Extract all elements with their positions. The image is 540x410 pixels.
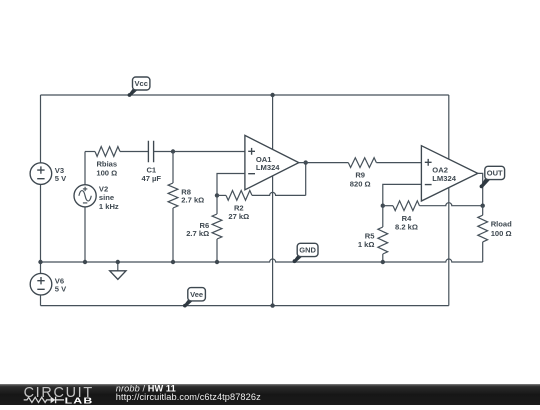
junction OUT node [481,204,485,208]
svg-text:http://circuitlab.com/c6tz4tp8: http://circuitlab.com/c6tz4tp87826z [116,392,261,402]
node junction R2/R6/OA1- [215,193,219,197]
footer bar [0,384,540,405]
wire OA1 output / resistor R9 [299,158,422,189]
svg-text:Rbias: Rbias [96,160,117,169]
wire GND mid rail [41,259,483,262]
junction V2 on GND rail [83,260,87,264]
svg-text:R2: R2 [234,203,244,212]
svg-text:R9: R9 [355,170,365,179]
junction R8 to GND rail [171,260,175,264]
voltage source V3 [30,163,67,185]
svg-text:R4: R4 [402,214,412,223]
resistor R5 [358,206,388,262]
junction OA1 V+ on Vcc rail [270,93,274,97]
svg-text:LM324: LM324 [256,163,280,172]
svg-text:sine: sine [99,193,114,202]
svg-text:2.7 kΩ: 2.7 kΩ [186,229,209,238]
resistor R8 [168,152,204,263]
svg-text:5 V: 5 V [55,174,67,183]
voltage source V6 [30,262,67,306]
node A junction (C1/R8/OA1+) [171,149,175,153]
svg-text:2.7 kΩ: 2.7 kΩ [181,196,204,205]
resistor R2 feedback [217,191,306,222]
wire OA1 V+ supply [272,95,274,152]
CircuitLab logo [24,385,94,406]
wire OA2 V- supply [448,185,450,306]
junction OA1 V- on Vee rail [270,303,274,307]
wire OA2 inverting input [383,184,422,205]
svg-text:1 kΩ: 1 kΩ [358,240,375,249]
svg-text:8.2 kΩ: 8.2 kΩ [395,223,418,232]
node Vee flag [183,288,205,308]
svg-text:27 kΩ: 27 kΩ [228,212,249,221]
capacitor C1 [142,141,245,183]
junction OA1 output node [304,160,308,164]
svg-text:820 Ω: 820 Ω [350,179,371,188]
svg-text:GND: GND [299,246,316,255]
junction ground tap [116,260,120,264]
sine source V2 [74,152,119,263]
resistor Rbias [85,147,148,178]
wire OA1 V- supply [272,174,274,306]
wire OA2 output [478,173,483,205]
resistor R6 [186,195,222,262]
junction R6 to GND rail [215,260,219,264]
junction R5 to GND rail [381,260,385,264]
wire OA2 V+ supply [448,95,450,162]
node Vcc flag [128,77,150,97]
svg-text:100 Ω: 100 Ω [491,229,512,238]
svg-text:LAB: LAB [65,396,94,405]
svg-text:Vee: Vee [190,290,203,299]
svg-text:100 Ω: 100 Ω [96,168,117,177]
ground [110,262,126,279]
resistor R4 feedback [383,201,483,232]
wire left rail lower (V3 to GND rail) [40,184,42,262]
wire feedback riser to OA1 output [305,163,307,196]
svg-text:47 µF: 47 µF [142,174,162,183]
svg-text:Vcc: Vcc [135,79,148,88]
node OUT flag [480,166,505,188]
svg-text:OUT: OUT [487,169,503,178]
node GND flag [293,243,318,263]
svg-text:1 kHz: 1 kHz [99,202,119,211]
svg-text:LM324: LM324 [432,174,456,183]
svg-text:5 V: 5 V [55,284,67,293]
resistor Rload [478,206,512,262]
wire Vee bottom rail [41,305,449,307]
wire Vcc top rail [41,94,449,96]
wire left rail upper (Vcc to V3) [40,95,42,163]
svg-text:Rload: Rload [491,219,512,228]
footer title text [116,384,261,403]
junction V3/V6 on GND rail [38,260,42,264]
wire OA1 inverting input [217,174,245,196]
op-amp OA2 LM324 [421,146,477,201]
node junction R4/R5/OA2- [381,204,385,208]
op-amp OA1 LM324 [245,135,299,189]
